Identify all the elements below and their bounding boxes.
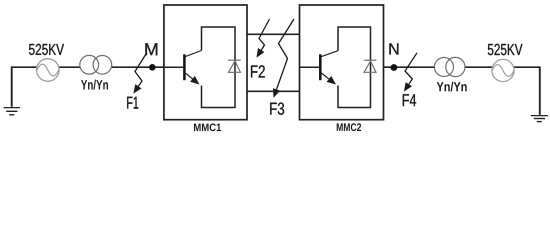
wire: DC top link between MMC1 and MMC2 bbox=[247, 33, 300, 35]
fault F4 arrow bbox=[405, 53, 417, 90]
label F2 bbox=[251, 65, 265, 77]
MMC1 inner cell loop bbox=[202, 27, 236, 108]
node N dot bbox=[391, 64, 398, 71]
label MMC1 bbox=[194, 124, 221, 132]
transformer T1 (left, Yn/Yn) bbox=[80, 55, 112, 74]
node M dot bbox=[149, 64, 156, 71]
fault F2 arrow bbox=[258, 19, 270, 56]
converter MMC2 box bbox=[300, 5, 384, 120]
MMC2 inner cell loop bbox=[338, 27, 371, 108]
fault F1 arrow bbox=[135, 53, 147, 93]
wire: right AC line from MMC2 to ground bbox=[384, 66, 541, 68]
label Yn/Yn (left) bbox=[81, 80, 108, 90]
diode D2 in MMC2 bbox=[364, 60, 377, 72]
label N bbox=[389, 43, 398, 54]
IGBT Q1 in MMC1 bbox=[164, 51, 202, 84]
AC source G2 (right) bbox=[492, 59, 514, 81]
ground (left) bbox=[4, 67, 20, 115]
transformer T2 (right, Yn/Yn) bbox=[435, 57, 466, 76]
label 525KV (left) bbox=[29, 44, 64, 55]
converter MMC1 box bbox=[164, 5, 247, 120]
label F1 bbox=[127, 97, 138, 109]
ground (right) bbox=[531, 67, 548, 121]
label 525KV (right) bbox=[488, 44, 523, 55]
IGBT Q2 in MMC2 bbox=[300, 51, 339, 84]
AC source G1 (left) bbox=[37, 59, 60, 82]
label F3 bbox=[270, 103, 284, 115]
wire: DC bottom link between MMC1 and MMC2 bbox=[247, 90, 300, 92]
fault F3 arrow bbox=[274, 19, 294, 96]
label Yn/Yn (right) bbox=[437, 82, 467, 92]
label MMC2 bbox=[337, 123, 361, 131]
wire: left AC line from ground to MMC1 bbox=[11, 66, 164, 68]
label M bbox=[145, 43, 157, 55]
diode D1 in MMC1 bbox=[228, 60, 241, 72]
label F4 bbox=[403, 94, 416, 106]
